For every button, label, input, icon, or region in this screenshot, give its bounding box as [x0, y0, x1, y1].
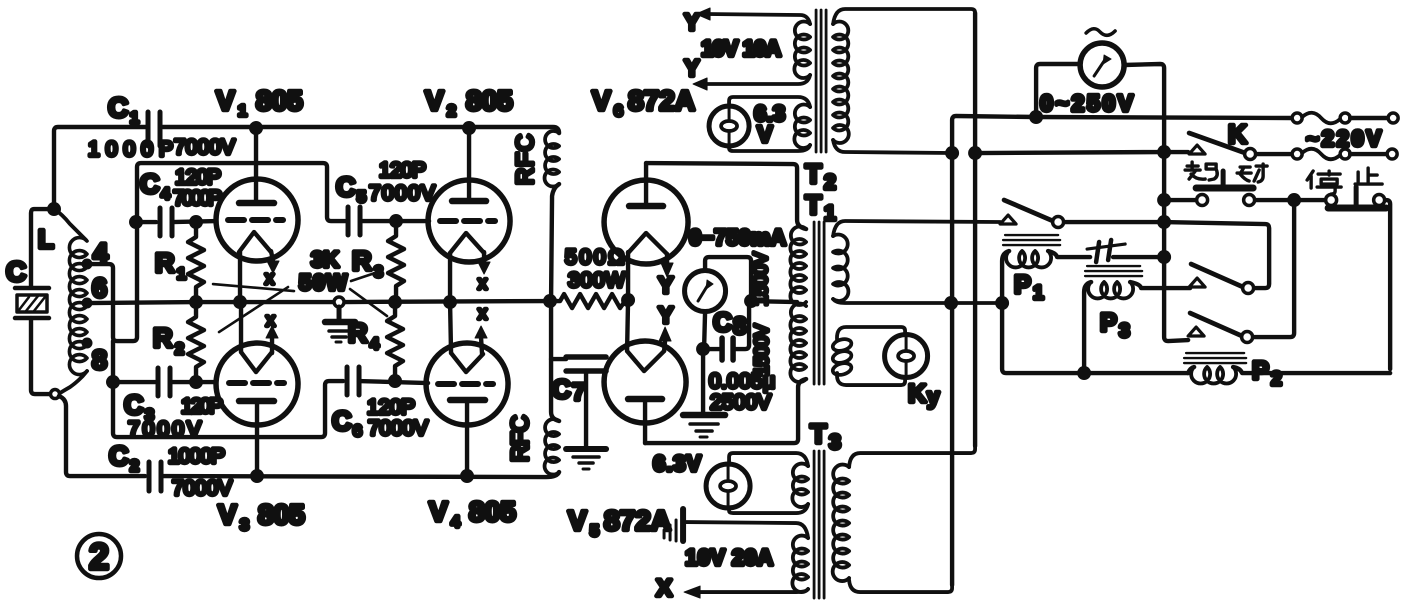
svg-text:10V 20A: 10V 20A [685, 545, 773, 570]
junction bus row3 [1157, 193, 1171, 207]
relay coil P1 [1002, 235, 1090, 303]
svg-text:7000V: 7000V [368, 417, 428, 440]
knife switch K [1168, 133, 1292, 160]
svg-text:7000V: 7000V [172, 477, 232, 500]
tap 6 (to main bus) [82, 298, 93, 309]
svg-text:x: x [478, 303, 487, 323]
svg-text:C: C [552, 374, 571, 404]
svg-text:7000V: 7000V [174, 136, 235, 159]
svg-text:X: X [656, 575, 672, 602]
svg-text:6: 6 [614, 103, 623, 120]
svg-text:3: 3 [829, 431, 841, 454]
svg-text:T: T [805, 190, 822, 220]
junction row3 x1294 [1287, 193, 1301, 207]
resistor R2 [188, 302, 204, 382]
T1 secondary lower [790, 304, 806, 383]
resistor R3 [388, 221, 404, 302]
stop button [1294, 187, 1390, 369]
capacitor C7 [551, 357, 606, 448]
junction V2 anode [462, 121, 476, 135]
RFC top [545, 131, 560, 301]
svg-text:1: 1 [130, 110, 139, 127]
svg-text:2: 2 [824, 171, 836, 194]
svg-text:Y: Y [684, 55, 699, 81]
leader lines [213, 273, 387, 332]
voltmeter 0~250V [1036, 29, 1164, 152]
junction 500ohm right [621, 293, 635, 307]
svg-text:6.3V: 6.3V [653, 451, 701, 476]
svg-text:4: 4 [451, 514, 460, 531]
svg-text:RFC: RFC [507, 415, 534, 462]
row2 right segment [975, 152, 1163, 153]
capacitor C8 [703, 301, 749, 413]
svg-text:7000V: 7000V [369, 182, 435, 205]
capacitor C1 [148, 112, 160, 146]
wire node to crystal [31, 209, 54, 286]
svg-text:R: R [153, 323, 173, 353]
svg-text:805: 805 [466, 85, 513, 116]
resistor 500ohm 300W [550, 294, 628, 308]
svg-text:V: V [757, 121, 773, 147]
svg-text:5: 5 [590, 523, 599, 540]
junction ring at coil bottom [51, 390, 60, 399]
T3 10V20A winding [684, 522, 808, 598]
wire C5 to V2 grid [360, 219, 429, 223]
svg-text:805: 805 [256, 85, 303, 116]
fuse row1 [1292, 113, 1398, 124]
spark capacitor [1087, 240, 1164, 262]
svg-text:2: 2 [130, 458, 139, 475]
svg-text:RFC: RFC [512, 134, 539, 185]
junction voltmeter row1 [1029, 110, 1043, 124]
svg-text:V: V [568, 505, 587, 536]
T3 6.3V lamp winding [729, 453, 808, 513]
svg-text:P: P [1252, 357, 1269, 385]
svg-text:x: x [478, 273, 487, 293]
junction R1 bottom [189, 295, 203, 309]
junction P1 row303 [995, 296, 1009, 310]
svg-text:6: 6 [92, 273, 107, 303]
svg-text:1: 1 [1033, 283, 1044, 304]
triode V3 [216, 302, 298, 476]
svg-text:P: P [1100, 309, 1117, 337]
svg-text:T: T [805, 159, 822, 189]
label qidong (start) [1185, 162, 1267, 182]
svg-text:~220V: ~220V [1306, 126, 1381, 151]
svg-text:R: R [352, 246, 372, 276]
svg-text:6: 6 [353, 423, 362, 440]
relay contact K1 [1000, 200, 1164, 228]
svg-text:7: 7 [572, 379, 585, 406]
bottom rail C2 row [162, 472, 559, 477]
svg-text:V: V [429, 496, 448, 527]
svg-text:Y: Y [684, 9, 699, 35]
wire grid loop via y437 to C6 [113, 381, 343, 437]
svg-text:C: C [332, 406, 352, 436]
rectifier V5 872A [604, 300, 686, 443]
svg-text:C: C [108, 92, 128, 123]
svg-text:120P: 120P [367, 396, 415, 419]
svg-text:3: 3 [1119, 321, 1130, 342]
transformer T2 core [816, 10, 826, 152]
ground C7 [566, 446, 606, 452]
svg-text:R: R [155, 248, 175, 278]
wire V5 anode to T1 bottom [645, 379, 806, 443]
transformer T1 core [814, 222, 824, 384]
wire tap to winding [751, 301, 797, 302]
svg-text:5: 5 [357, 189, 366, 206]
svg-text:K: K [1228, 119, 1247, 149]
T1 secondary upper [790, 227, 806, 306]
transformer T3 core [814, 451, 824, 598]
node A junction [47, 202, 61, 216]
svg-text:805: 805 [258, 499, 305, 530]
svg-text:x: x [265, 268, 274, 288]
relay contact K3 [1188, 200, 1294, 343]
lamp 6.3V T2 [709, 106, 749, 146]
connector bars after V5 label [664, 520, 676, 541]
junction R3 bottom [388, 295, 402, 309]
svg-text:10V 10A: 10V 10A [701, 36, 781, 61]
bus A x951 [952, 116, 1036, 585]
svg-text:1: 1 [177, 266, 186, 283]
svg-text:2: 2 [89, 536, 109, 577]
lamp Ky [885, 335, 928, 378]
milliammeter 0-750mA [685, 257, 752, 349]
T3 primary [833, 446, 975, 592]
relay coil P3 [1084, 266, 1190, 373]
svg-text:120P: 120P [175, 166, 221, 189]
capacitor C4 [160, 208, 172, 236]
junction C3 right [189, 375, 203, 389]
row373 [1084, 371, 1188, 375]
svg-text:2: 2 [447, 103, 456, 120]
svg-text:1500V: 1500V [752, 324, 773, 376]
junction bus A row2 [945, 146, 959, 160]
svg-text:T: T [810, 419, 827, 449]
triode V2 [428, 129, 510, 302]
fuse row2 [1292, 149, 1397, 160]
wire V6 anode to T1 top [646, 163, 806, 229]
wire C4 top link y163 [137, 163, 345, 226]
svg-text:2500V: 2500V [710, 391, 771, 414]
junction bus row222 [1157, 215, 1171, 229]
Ky winding on T1 [831, 327, 905, 385]
svg-text:V: V [218, 499, 237, 530]
bus B x975 [973, 13, 977, 446]
tap 8 [82, 338, 93, 349]
svg-text:7000V: 7000V [128, 418, 201, 441]
svg-text:0−750mA: 0−750mA [689, 225, 786, 250]
row1 AC line [1036, 117, 1292, 118]
triode V1 [216, 128, 298, 302]
junction RFC bus [543, 294, 557, 308]
junction V2 cathode bus [443, 295, 457, 309]
svg-text:C: C [6, 256, 26, 287]
relay contact K2 [1189, 264, 1254, 294]
svg-text:2: 2 [1271, 369, 1282, 390]
wire row222 to K2 [1164, 222, 1269, 288]
relay coil P2 [1184, 353, 1390, 383]
capacitor C2 [149, 462, 161, 491]
wire P1 down to row373 [1002, 303, 1082, 373]
junction V3 anode [250, 469, 264, 483]
resistor R4 [387, 302, 403, 381]
main cathode bus [87, 301, 549, 303]
svg-text:8: 8 [733, 313, 746, 340]
junction bus A row303 [944, 296, 958, 310]
svg-text:7000P: 7000P [173, 187, 222, 210]
svg-text:V: V [592, 85, 611, 116]
svg-text:C: C [336, 172, 356, 202]
resistor R1 [188, 222, 204, 302]
svg-text:3K: 3K [311, 247, 339, 272]
wire C3 to V3 grid [170, 380, 216, 384]
svg-text:P: P [1014, 271, 1031, 299]
RFC bottom [545, 301, 560, 475]
junction bus row257 [1157, 250, 1171, 264]
wire C4 left stub [136, 220, 156, 224]
svg-text:805: 805 [469, 496, 516, 527]
junction row2 bus1164 [1157, 145, 1171, 159]
T2 secondary 10V10A [693, 8, 810, 90]
wire top rail from node to RFC [54, 127, 559, 209]
wire ring to C2 row [59, 396, 145, 476]
crystal C [15, 288, 49, 318]
junction T1 tap [744, 294, 758, 308]
svg-text:1500V: 1500V [751, 252, 772, 306]
svg-text:4: 4 [93, 238, 108, 268]
junction C5 right [389, 214, 403, 228]
wire C4 to V1 grid [172, 221, 216, 222]
junction V1 cathode bus [233, 295, 247, 309]
capacitor C5 [348, 207, 360, 235]
T1 primary [833, 221, 1001, 303]
junction C3 left [106, 375, 120, 389]
junction C4 left [129, 215, 143, 229]
svg-text:120P: 120P [379, 159, 426, 182]
svg-text:4: 4 [161, 186, 170, 203]
rectifier V6 872A [604, 163, 688, 300]
svg-text:2: 2 [175, 341, 184, 358]
junction C6 right [388, 374, 402, 388]
svg-text:3: 3 [240, 517, 249, 534]
svg-text:300W: 300W [568, 269, 625, 292]
svg-text:x: x [266, 310, 275, 330]
svg-text:Y: Y [658, 272, 673, 298]
svg-text:50W: 50W [299, 270, 347, 295]
lamp 6.3V T3 [706, 464, 750, 509]
wire C6 to V4 grid [359, 381, 428, 383]
junction bus B row2 [968, 146, 982, 160]
ground C8 [683, 412, 725, 419]
svg-text:872A: 872A [604, 505, 671, 536]
svg-text:8: 8 [92, 345, 107, 375]
svg-text:1: 1 [824, 202, 836, 225]
svg-text:1: 1 [238, 103, 247, 120]
svg-text:4: 4 [370, 336, 379, 353]
T2 primary [833, 9, 975, 153]
control bus x1164 [1164, 152, 1188, 341]
svg-text:V: V [216, 85, 235, 116]
junction C8 left [696, 342, 710, 356]
capacitor C3 [158, 368, 170, 396]
junction V4 anode [460, 469, 474, 483]
svg-text:C: C [109, 441, 128, 471]
svg-text:y: y [927, 384, 940, 409]
start button [1164, 171, 1289, 206]
tap 4 [82, 259, 93, 270]
ground at bus [334, 297, 344, 307]
T2 6.3V lamp winding [729, 97, 810, 151]
svg-text:Y: Y [658, 302, 673, 328]
junction V1 anode [249, 121, 263, 135]
svg-text:V: V [425, 85, 444, 116]
triode V4 [426, 302, 508, 476]
junction P3 row373 [1077, 366, 1091, 380]
circled 2 [77, 534, 121, 578]
svg-text:C: C [140, 169, 159, 199]
svg-text:K: K [908, 380, 926, 408]
junction C4 right [189, 215, 203, 229]
inductor L [54, 209, 87, 393]
wire crystal bottom lead [31, 318, 50, 394]
svg-text:872A: 872A [628, 85, 695, 116]
capacitor C6 [347, 367, 359, 395]
svg-text:1000P: 1000P [168, 445, 225, 468]
svg-text:L: L [38, 224, 54, 254]
label tingzhi (stop) [1307, 168, 1382, 194]
wire tap8 via x113 down to C3 row [113, 341, 155, 382]
svg-text:C: C [713, 307, 732, 337]
svg-text:C: C [124, 390, 144, 420]
